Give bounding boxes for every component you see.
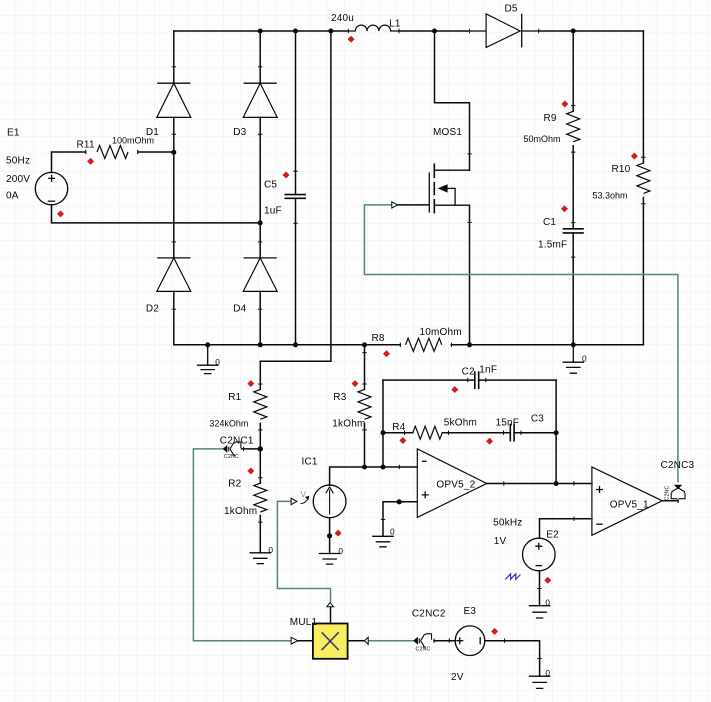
capacitor C1 — [563, 229, 584, 233]
svg-text:C2NC: C2NC — [416, 646, 431, 652]
wire C2 left vertical to R4/minus node — [382, 380, 384, 467]
junction node E1 return — [258, 220, 263, 225]
pin ticks C5 — [293, 171, 297, 223]
wire OPV5_1 minus input to E2 — [540, 519, 592, 539]
connector C2NC1 — [223, 442, 241, 455]
svg-text:R4: R4 — [392, 422, 405, 433]
capacitor C2 — [475, 371, 479, 389]
pin ticks L1 — [348, 29, 399, 33]
pin ticks C3 — [504, 431, 522, 435]
wire R3 from bottom rail — [364, 345, 366, 390]
svg-text:50kHz: 50kHz — [493, 517, 522, 528]
junction bottom rail at C5 — [293, 342, 298, 347]
wire top rail right segment — [539, 30, 644, 32]
wire R9 branch from top rail — [572, 31, 574, 111]
probe marker C1 — [561, 206, 567, 212]
resistor R2 — [254, 483, 267, 512]
pin tick OPV5_2 minus — [398, 465, 400, 469]
diode D1 — [157, 83, 191, 117]
junction OPV5_2 output node — [554, 481, 559, 486]
wire MOS1 gate stub — [398, 204, 430, 206]
svg-text:R9: R9 — [544, 113, 557, 124]
svg-text:MOS1: MOS1 — [433, 127, 462, 138]
svg-text:0: 0 — [268, 545, 273, 555]
pin tick E3 ground stub — [537, 658, 541, 660]
waveform icon E2 — [505, 574, 520, 579]
wire C3 to output column — [514, 432, 556, 434]
probe marker E1 minus — [57, 211, 63, 217]
probe marker R9 — [562, 101, 568, 107]
wire R2 to ground — [259, 516, 261, 553]
svg-text:C2NC: C2NC — [224, 454, 239, 460]
pin ticks D1 — [172, 67, 176, 135]
svg-text:R1: R1 — [228, 392, 241, 403]
svg-text:0A: 0A — [6, 191, 19, 202]
probe marker R10 — [631, 153, 637, 159]
svg-text:C5: C5 — [264, 180, 277, 191]
wire C1 to bottom rail — [572, 233, 574, 345]
probe marker E2 — [545, 577, 551, 583]
ground E2 — [529, 606, 551, 618]
capacitor C3 — [510, 424, 514, 442]
svg-text:50Hz: 50Hz — [6, 156, 30, 167]
junction top rail at R9 — [571, 29, 576, 34]
junction node R11 to bridge — [171, 150, 176, 155]
connector C2NC2 — [414, 634, 432, 647]
AC source E1 — [35, 172, 67, 204]
junction bottom rail at R3 — [362, 342, 367, 347]
pin tick E2 ground stub — [537, 588, 541, 590]
svg-text:1V: 1V — [494, 536, 507, 547]
svg-text:5kOhm: 5kOhm — [444, 417, 477, 428]
wire R9 to C1 — [572, 146, 574, 229]
wire MOS1 source to bottom rail — [469, 205, 471, 345]
svg-text:E2: E2 — [546, 529, 559, 540]
svg-text:2V: 2V — [451, 672, 464, 683]
wire IC1 top to OPV5_2 inverting input — [330, 467, 418, 485]
svg-text:OPV5_2: OPV5_2 — [436, 480, 475, 491]
pin ticks R8 — [400, 343, 451, 347]
junction IC1 bottom — [327, 533, 332, 538]
svg-text:1uF: 1uF — [264, 205, 282, 216]
pin ticks R10 — [641, 157, 645, 204]
wire R10 to bottom rail — [642, 198, 644, 345]
wire top rail left segment — [174, 30, 348, 32]
svg-text:0: 0 — [390, 527, 395, 537]
svg-text:C1: C1 — [543, 217, 556, 228]
svg-text:R8: R8 — [372, 333, 385, 344]
probe marker L1 — [348, 36, 354, 42]
source E2 — [523, 538, 556, 571]
pin tick C2NC2 — [433, 639, 435, 643]
probe marker C2 — [452, 386, 458, 392]
probe marker R11 — [87, 158, 93, 164]
probe marker C3 — [486, 438, 492, 444]
junction top rail at D3 — [258, 29, 263, 34]
svg-text:0: 0 — [545, 668, 550, 678]
svg-text:R10: R10 — [612, 164, 631, 175]
svg-text:240u: 240u — [331, 13, 354, 24]
wire C2NC1 stub to node A — [242, 448, 261, 450]
svg-text:MUL1: MUL1 — [290, 617, 318, 628]
svg-text:0: 0 — [545, 598, 550, 608]
wire MUL1 top port stub — [330, 607, 332, 624]
svg-text:D3: D3 — [233, 127, 246, 138]
transistor MOS1 — [429, 163, 469, 213]
probe marker R3 — [352, 380, 358, 386]
junction top rail at sense line — [328, 29, 333, 34]
wire R10 branch from top rail — [642, 31, 644, 163]
junction bottom rail at MOS1 source — [467, 342, 472, 347]
probe marker C5 — [283, 172, 289, 178]
junction bottom rail at ground — [205, 342, 210, 347]
svg-text:C2NC: C2NC — [665, 486, 671, 501]
wire D3-D4 column — [259, 31, 261, 345]
pin ticks C2 — [468, 378, 486, 382]
connector C2NC3 — [671, 485, 685, 499]
wire OPV5_2 output to OPV5_1 plus input — [487, 483, 592, 485]
svg-text:50mOhm: 50mOhm — [524, 134, 561, 144]
ground IC1 — [319, 554, 341, 565]
wire OPV5_2 plus input to ground — [383, 502, 417, 537]
pin ticks R11 — [86, 150, 138, 154]
capacitor C5 — [285, 195, 307, 199]
svg-text:OPV5_1: OPV5_1 — [610, 500, 649, 511]
svg-text:0: 0 — [338, 546, 343, 556]
wire bottom rail right segment — [451, 344, 643, 346]
wire R1 to node A — [259, 423, 261, 483]
pin ticks E3 — [449, 639, 504, 643]
wire MOS1 drain branch — [435, 31, 470, 170]
probe marker R1 — [248, 380, 254, 386]
multiplier MUL1 — [291, 603, 368, 659]
svg-text:53.3ohm: 53.3ohm — [593, 190, 628, 200]
svg-text:R11: R11 — [77, 140, 95, 151]
controlled source IC1 — [301, 485, 346, 518]
junction inverting line at R3 — [362, 465, 367, 470]
svg-text:E3: E3 — [464, 606, 477, 617]
svg-text:324kOhm: 324kOhm — [209, 419, 248, 429]
op-amp U2 OPV5_1 — [592, 467, 662, 535]
pin tick OPV5_1 output — [677, 499, 679, 503]
wire E1 top to bridge — [52, 152, 174, 173]
pin tick C2NC1 — [243, 447, 245, 451]
probe marker E3 — [491, 628, 497, 634]
junction C3-output column — [554, 430, 559, 435]
wire C2 feedback top — [383, 379, 556, 381]
ground OPV5_2 plus input — [372, 536, 394, 547]
wire MUL1 left port stub — [298, 640, 313, 642]
pin tick OPV5_2 output — [503, 481, 505, 485]
source E3 — [455, 626, 485, 656]
svg-text:V: V — [301, 489, 307, 499]
junction bottom rail at D4 — [258, 342, 263, 347]
wire C2NC2 to E3 — [434, 640, 455, 642]
wire C5 column — [295, 31, 297, 345]
svg-text:C2: C2 — [462, 367, 475, 378]
wire R4 row — [383, 432, 510, 434]
svg-text:1nF: 1nF — [479, 365, 497, 376]
svg-text:E1: E1 — [7, 128, 20, 139]
resistor R3 — [358, 389, 371, 419]
wire E1 bottom to D3-D4 column — [52, 205, 261, 223]
junction top rail at MOS1 drain — [432, 29, 437, 34]
svg-text:C3: C3 — [531, 414, 544, 425]
wire E2 bottom to ground — [539, 571, 541, 606]
wire IC1 bottom to ground — [329, 518, 331, 554]
svg-text:C2NC1: C2NC1 — [220, 436, 254, 447]
wire voltage-sense line to R1 — [260, 31, 331, 389]
resistor R4 — [413, 426, 442, 439]
wire green net IC1 V-input to MUL1 top input — [277, 501, 330, 602]
junction node A divider R1-R2 — [258, 446, 263, 451]
diode D2 — [157, 258, 191, 292]
resistor R10 — [637, 163, 650, 193]
pin ticks R2 — [258, 478, 262, 522]
svg-text:1kOhm: 1kOhm — [332, 419, 365, 430]
pin ticks C1 — [571, 223, 575, 258]
wire green gate-drive net from OPV5_1 via C2NC3 to MOS1 gate — [364, 205, 678, 482]
port arrow MOS1 gate — [392, 202, 398, 208]
resistor R9 — [567, 111, 580, 141]
junction R4-C2 node — [381, 430, 386, 435]
diode D5 — [470, 14, 539, 48]
pin tick ground stub OPV5_2 — [381, 518, 385, 520]
svg-text:L1: L1 — [389, 19, 401, 30]
junction top rail at C5 — [293, 29, 298, 34]
pin ticks R9 — [571, 106, 575, 153]
wire green net C2NC1 to MUL1 left input — [193, 449, 291, 641]
pin ticks D3 — [258, 67, 262, 135]
svg-text:D5: D5 — [505, 4, 518, 15]
pin ticks R4 — [405, 431, 449, 435]
svg-text:10mOhm: 10mOhm — [420, 327, 462, 338]
wire R3 bottom to inverting line — [364, 423, 366, 467]
svg-text:IC1: IC1 — [302, 457, 318, 468]
ground bridge return — [197, 345, 219, 374]
wire OPV5_1 output to C2NC3 — [662, 500, 678, 502]
diode D4 — [243, 258, 277, 292]
svg-text:0: 0 — [215, 357, 220, 367]
pin ticks R3 — [362, 353, 366, 430]
svg-text:R2: R2 — [228, 479, 241, 490]
wire bottom rail left segment — [174, 344, 400, 346]
pin ticks R1 — [258, 384, 262, 430]
pin tick OPV5_1 plus — [573, 481, 575, 485]
pin ticks D4 — [258, 242, 262, 309]
svg-text:D1: D1 — [146, 127, 159, 138]
port arrow IC1 V input — [291, 498, 297, 504]
svg-text:C2NC3: C2NC3 — [661, 460, 695, 471]
svg-text:1.5mF: 1.5mF — [538, 240, 567, 251]
resistor R11 — [97, 146, 128, 159]
svg-text:D2: D2 — [146, 304, 159, 315]
junction bottom rail at output ground — [571, 342, 576, 347]
svg-text:C2NC2: C2NC2 — [412, 608, 446, 619]
wire MUL1 right port stub — [348, 640, 365, 642]
wire D1-D2 column — [173, 31, 175, 345]
svg-text:0: 0 — [582, 354, 587, 364]
resistor R1 — [254, 389, 267, 419]
resistor R8 — [406, 338, 442, 351]
junction OPV5_2 plus wire — [397, 499, 402, 504]
ground E3 — [529, 676, 551, 688]
op-amp U1 OPV5_2 — [417, 449, 486, 518]
wire E3 right to ground — [485, 641, 540, 677]
probe marker IC1 — [335, 530, 341, 536]
wire C2 right vertical to output node — [555, 380, 557, 483]
pin ticks MOS1 drain and source — [467, 154, 471, 223]
junction inverting line at R4 — [381, 465, 386, 470]
pin tick OPV5_1 minus — [573, 517, 575, 521]
probe marker R2 — [248, 468, 254, 474]
wire green net MUL1 output to C2NC2 — [368, 640, 414, 642]
pin ticks D5 — [470, 29, 539, 33]
svg-text:200V: 200V — [6, 174, 30, 185]
svg-text:R3: R3 — [333, 392, 346, 403]
ground R2 — [250, 553, 272, 564]
svg-text:D4: D4 — [233, 304, 246, 315]
probe marker R4 — [400, 437, 406, 443]
svg-text:15nF: 15nF — [496, 417, 520, 428]
pin ticks D2 — [172, 242, 176, 309]
diode D3 — [243, 83, 277, 117]
svg-text:1kOhm: 1kOhm — [224, 506, 257, 517]
probe marker R8 — [383, 351, 389, 357]
inductor L1 — [348, 25, 399, 31]
wire top rail middle segment — [399, 30, 470, 32]
ground output rail — [563, 345, 585, 373]
